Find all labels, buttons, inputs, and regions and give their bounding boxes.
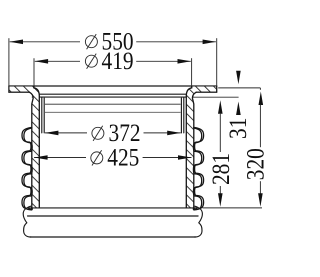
flange bore far edge xyxy=(34,93,192,95)
bellows convolutions right outer xyxy=(194,127,204,209)
bellows convolutions right inner xyxy=(193,128,201,210)
dimension dia 550 xyxy=(9,28,217,86)
svg-text:425: 425 xyxy=(107,144,139,172)
flange left section xyxy=(9,86,34,92)
ref line collar bottom right xyxy=(194,96,239,98)
bellows convolutions left outer xyxy=(22,127,32,209)
bellows cuff right xyxy=(181,97,183,133)
dimension 31 xyxy=(224,71,252,139)
collar bottom far edge xyxy=(45,103,181,105)
svg-text:281: 281 xyxy=(207,153,235,185)
base profile left xyxy=(23,206,31,237)
flange top outline xyxy=(9,85,217,87)
base profile right xyxy=(195,206,203,237)
dimension 281 xyxy=(207,100,235,207)
flange right section xyxy=(192,86,217,92)
base bottom edge xyxy=(30,236,196,238)
ref line flange top right xyxy=(218,87,260,89)
collar and liner band left (section) xyxy=(29,86,39,208)
base top edge xyxy=(29,207,198,209)
base ring line 1 xyxy=(28,215,199,217)
svg-text:419: 419 xyxy=(102,47,134,75)
bellows cuff top far edge xyxy=(45,111,181,113)
bellows cuff left xyxy=(42,97,44,133)
svg-text:320: 320 xyxy=(242,148,270,180)
dimension 320 xyxy=(242,88,270,207)
dimension dia 425 xyxy=(34,144,191,172)
bellows convolutions left inner xyxy=(24,128,32,210)
dimension dia 419 xyxy=(34,47,192,86)
svg-text:31: 31 xyxy=(224,118,252,139)
collar flare bottom far edge xyxy=(32,96,193,98)
dimension dia 372 xyxy=(45,119,181,147)
collar and liner band right (section) xyxy=(186,86,196,208)
ref line bellows bottom right xyxy=(203,207,263,209)
